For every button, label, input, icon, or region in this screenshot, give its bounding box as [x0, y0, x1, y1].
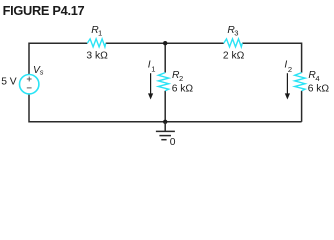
resistor R3	[224, 39, 243, 47]
voltage source Vs	[20, 75, 39, 94]
ground	[156, 122, 175, 140]
svg-text:3: 3	[234, 29, 238, 38]
svg-text:1: 1	[151, 64, 155, 73]
current arrow I2	[285, 73, 290, 99]
current arrow I1	[148, 73, 153, 99]
minus sign	[27, 87, 32, 89]
node 0 junction dot	[163, 120, 167, 124]
wire middle branch lower stub	[164, 91, 166, 122]
plus sign	[27, 77, 32, 82]
svg-text:6 kΩ: 6 kΩ	[308, 84, 330, 95]
wire middle branch upper stub	[164, 43, 166, 72]
svg-text:2: 2	[288, 65, 292, 74]
wire top-left segment	[29, 43, 87, 74]
svg-text:2 kΩ: 2 kΩ	[223, 50, 245, 61]
node A junction dot	[163, 41, 167, 45]
svg-text:6 kΩ: 6 kΩ	[172, 84, 194, 95]
resistor R2	[158, 73, 168, 91]
svg-text:1: 1	[98, 29, 102, 38]
svg-text:FIGURE P4.17: FIGURE P4.17	[3, 3, 85, 18]
svg-text:s: s	[40, 68, 44, 77]
wire right lower segment	[301, 91, 303, 122]
resistor R1	[87, 39, 105, 47]
svg-text:5 V: 5 V	[1, 77, 17, 88]
wire bottom segment	[29, 94, 302, 122]
wire top middle segment	[106, 42, 224, 44]
svg-text:0: 0	[170, 137, 176, 148]
wire top right segment	[242, 43, 301, 72]
resistor R4	[295, 73, 305, 91]
svg-text:4: 4	[315, 74, 319, 83]
svg-text:3 kΩ: 3 kΩ	[86, 50, 108, 61]
svg-text:2: 2	[179, 74, 183, 83]
